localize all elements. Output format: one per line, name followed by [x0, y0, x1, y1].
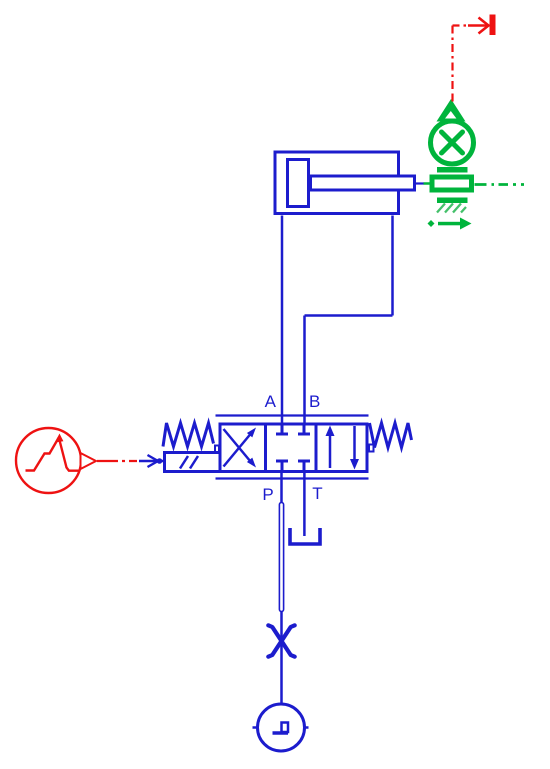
wire: red dash-dot sensor line vertical	[451, 26, 453, 93]
sensor output arrow	[479, 18, 489, 34]
valve right position: parallel flow arrows	[326, 426, 360, 470]
svg-text:T: T	[312, 484, 322, 503]
valve right anchor nub	[369, 445, 374, 452]
signal generator G1 (ramp function generator)	[16, 428, 81, 493]
valve centre position: blocked ports	[276, 425, 310, 470]
wire: red dash-dot signal line from generator to valve solenoid	[97, 460, 137, 462]
valve left spring	[163, 423, 214, 447]
transducer foot bar	[437, 167, 468, 173]
wire: P line through orifice down to gauge	[280, 612, 283, 705]
wire: B port line down to valve	[303, 316, 306, 424]
wire: T port line from valve to tank	[303, 473, 306, 537]
node: blue input arrow into proportional solenoid	[139, 455, 164, 467]
tank T1	[290, 528, 320, 544]
cylinder C1 (double acting)	[275, 152, 415, 214]
ground bar under mass	[437, 198, 468, 204]
wire: blue rod link to transducer	[416, 182, 424, 184]
wire: green dash-dot reference line right	[475, 183, 526, 186]
sensor output terminal bar	[490, 15, 496, 36]
wire: red dash-dot sensor line horizontal	[453, 24, 471, 26]
wire: red solid stub at transducer funnel	[451, 94, 453, 102]
pipe: double-line hydraulic pipe on P line	[279, 503, 283, 612]
valve right spring	[370, 423, 412, 448]
generator output port triangle	[81, 453, 97, 469]
orifice X1 (restrictor)	[268, 625, 294, 656]
valve bottom proportional line	[216, 477, 369, 479]
wire: elbow horizontal	[305, 314, 393, 317]
valve left anchor nub	[215, 446, 219, 454]
mass block (slide)	[432, 177, 472, 190]
wire: A port line from cylinder left port down to valve	[281, 216, 284, 424]
transducer circle with X	[431, 121, 474, 164]
transducer funnel	[437, 99, 466, 122]
valve body boxes	[220, 424, 367, 472]
svg-text:A: A	[265, 392, 277, 411]
valve left position: crossed arrows	[224, 428, 257, 468]
valve top proportional line	[216, 414, 369, 416]
wire: P port line from valve	[280, 473, 283, 504]
pressure gauge M1	[253, 704, 309, 751]
svg-text:B: B	[309, 392, 320, 411]
wire: red solid shaft into arrow	[468, 24, 488, 26]
motion direction arrow (green)	[428, 218, 472, 230]
wire: cylinder right port down	[391, 216, 394, 316]
ground hatching	[437, 204, 466, 213]
wire: green link from rod	[424, 182, 430, 185]
proportional solenoid (left, with slashes)	[165, 453, 221, 472]
svg-text:P: P	[262, 485, 273, 504]
